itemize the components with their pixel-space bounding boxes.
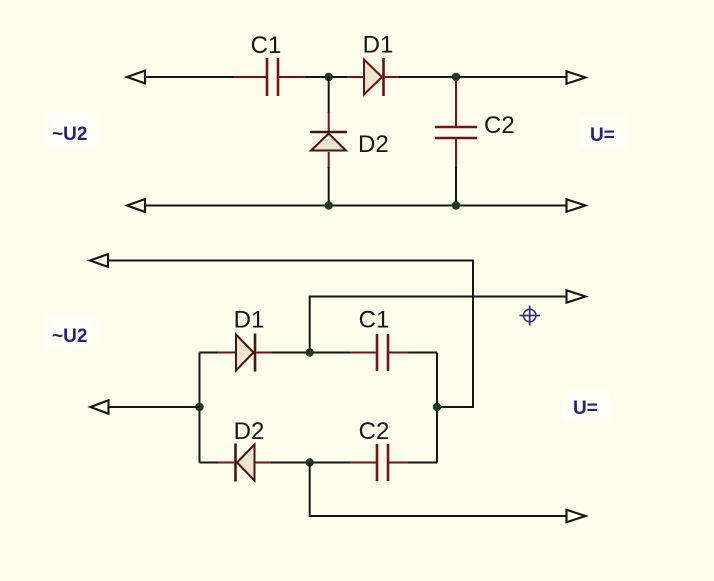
svg-text:C2: C2 [484, 112, 515, 139]
terminal arrow DC output upper-right (bottom circuit) [567, 290, 586, 302]
svg-text:U=: U= [590, 125, 615, 146]
diode D1 (bottom circuit, pointing right) [217, 334, 273, 372]
wire bridge top row right segment [408, 352, 437, 354]
svg-text:C2: C2 [359, 418, 390, 445]
wire bottom rail [145, 205, 567, 207]
terminal arrow DC output bottom-right [567, 199, 586, 211]
node junction bottom rail at D2 branch [325, 201, 333, 209]
terminal arrow AC top-left (bottom circuit) [90, 254, 108, 267]
wire top rail: arrow to C1 [145, 76, 235, 78]
label D1 [363, 32, 394, 59]
node junction right rail output [433, 403, 441, 411]
terminal arrow DC output lower-right (bottom circuit) [567, 510, 586, 522]
capacitor C1 (bottom circuit) [350, 334, 409, 371]
wire top rail: C1 to D1 [306, 76, 348, 78]
wire upper output: from D1/C1 junction up and right [310, 297, 567, 353]
label U= output voltage (top circuit) [580, 116, 626, 148]
wire bridge bottom row left segment [200, 462, 220, 464]
terminal arrow AC input top-left [127, 71, 145, 84]
wire C2 branch lower segment [455, 167, 457, 205]
wire left rail to input arrow [109, 406, 200, 408]
node junction bottom rail at C2 branch [452, 201, 460, 209]
wire bridge top row left segment [200, 352, 219, 354]
label U= output voltage (bottom circuit) [563, 390, 609, 422]
capacitor C2 (bottom circuit) [350, 444, 409, 481]
svg-text:~U2: ~U2 [52, 124, 87, 145]
diode D2 (bottom circuit, pointing left) [218, 444, 272, 482]
svg-text:~U2: ~U2 [52, 326, 87, 347]
label C2 (bottom circuit) [359, 418, 390, 445]
node junction left rail input [195, 403, 203, 411]
svg-text:D2: D2 [358, 131, 389, 158]
wire bridge right rail [436, 353, 438, 463]
wire D2 branch upper segment [328, 77, 330, 113]
label C2 [484, 112, 515, 139]
terminal arrow AC input bottom-left [127, 199, 145, 212]
label ~U2 input voltage (top circuit) [46, 113, 96, 146]
node junction top rail at D2 branch [325, 73, 333, 81]
wire lower output: from D2/C2 junction down and right [310, 463, 567, 517]
origin crosshair mark [520, 306, 541, 326]
terminal arrow DC output top-right [567, 71, 586, 83]
svg-text:D2: D2 [234, 418, 265, 445]
label ~U2 input voltage (bottom circuit) [46, 316, 96, 348]
label D2 [358, 131, 389, 158]
diode D1 [347, 58, 400, 96]
label C1 (bottom circuit) [359, 307, 390, 334]
svg-text:U=: U= [573, 398, 598, 419]
node junction top rail at C2 branch [452, 73, 460, 81]
wire top rail: D1 to right arrow [399, 76, 567, 78]
wire bridge top row middle segment [272, 352, 351, 354]
svg-text:C1: C1 [251, 32, 282, 59]
svg-text:C1: C1 [359, 307, 390, 334]
capacitor C1 [234, 58, 307, 96]
wire top feed: arrow right then down to output node [108, 261, 473, 408]
svg-text:D1: D1 [363, 32, 394, 59]
label C1 [251, 32, 282, 59]
terminal arrow AC input middle-left (bottom circuit) [91, 400, 109, 413]
node junction bridge bottom row [306, 458, 314, 466]
capacitor C2 (horizontal plates) [435, 79, 477, 168]
label D1 (bottom circuit) [234, 307, 265, 334]
svg-text:D1: D1 [234, 307, 265, 334]
label D2 (bottom circuit) [234, 418, 265, 445]
wire bridge bottom row right segment [408, 462, 437, 464]
wire bridge bottom row middle segment [271, 462, 351, 464]
diode D2 (cathode up) [310, 112, 347, 168]
node junction bridge top row [306, 348, 314, 356]
wire bridge left rail [199, 353, 201, 463]
wire D2 branch lower segment [328, 167, 330, 205]
